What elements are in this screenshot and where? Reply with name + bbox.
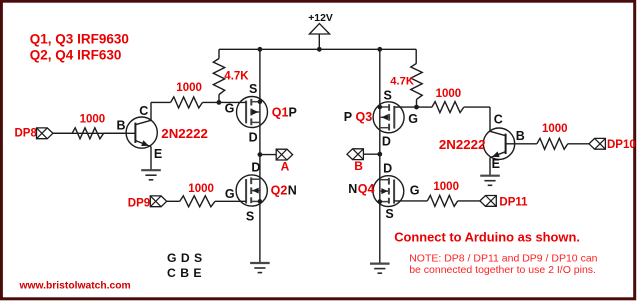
- svg-text:Q1, Q3 IRF9630: Q1, Q3 IRF9630: [30, 31, 129, 46]
- svg-text:Q4: Q4: [358, 182, 375, 196]
- svg-text:+12V: +12V: [308, 13, 333, 24]
- svg-text:2N2222: 2N2222: [439, 137, 486, 152]
- svg-text:G: G: [225, 187, 235, 201]
- svg-text:Q1: Q1: [272, 105, 289, 119]
- svg-text:G: G: [225, 102, 235, 116]
- svg-text:Connect to Arduino as shown.: Connect to Arduino as shown.: [394, 230, 580, 245]
- svg-text:P: P: [344, 110, 352, 124]
- svg-text:D: D: [382, 135, 391, 149]
- svg-text:S: S: [246, 209, 254, 223]
- svg-text:1000: 1000: [176, 82, 202, 94]
- svg-text:1000: 1000: [188, 183, 214, 195]
- svg-text:S: S: [384, 88, 392, 102]
- svg-text:1000: 1000: [433, 181, 459, 193]
- svg-text:C B E: C B E: [167, 266, 202, 280]
- svg-text:P: P: [289, 105, 297, 119]
- svg-text:C: C: [139, 104, 148, 118]
- svg-text:Q2, Q4 IRF630: Q2, Q4 IRF630: [30, 48, 122, 63]
- svg-text:DP10: DP10: [607, 139, 636, 151]
- svg-text:D: D: [383, 161, 392, 175]
- svg-text:E: E: [492, 157, 500, 171]
- svg-text:Q3: Q3: [356, 110, 373, 124]
- svg-text:be connected together to use 2: be connected together to use 2 I/O pins.: [409, 264, 596, 276]
- svg-text:E: E: [154, 147, 162, 161]
- svg-text:Q2: Q2: [271, 184, 288, 198]
- svg-text:4.7K: 4.7K: [224, 71, 249, 83]
- svg-text:D: D: [251, 160, 260, 174]
- svg-text:1000: 1000: [436, 88, 462, 100]
- svg-text:N: N: [288, 184, 297, 198]
- svg-text:B: B: [354, 159, 363, 173]
- svg-text:DP8: DP8: [15, 127, 38, 139]
- svg-text:DP9: DP9: [128, 198, 150, 210]
- svg-text:S: S: [385, 207, 393, 221]
- svg-text:1000: 1000: [542, 123, 568, 135]
- svg-text:www.bristolwatch.com: www.bristolwatch.com: [19, 280, 131, 291]
- svg-text:DP11: DP11: [499, 196, 528, 208]
- svg-text:2N2222: 2N2222: [161, 126, 208, 141]
- svg-text:S: S: [249, 82, 257, 96]
- svg-text:NOTE: DP8 / DP11 and DP9 / DP1: NOTE: DP8 / DP11 and DP9 / DP10 can: [409, 253, 597, 265]
- svg-text:G: G: [408, 112, 418, 126]
- svg-text:A: A: [281, 159, 290, 173]
- svg-text:4.7K: 4.7K: [390, 75, 414, 87]
- svg-text:B: B: [516, 129, 525, 143]
- svg-text:D: D: [249, 130, 258, 144]
- svg-text:N: N: [348, 182, 357, 196]
- svg-text:B: B: [117, 118, 126, 132]
- svg-text:C: C: [494, 113, 503, 127]
- svg-text:1000: 1000: [80, 113, 106, 125]
- svg-text:G D S: G D S: [167, 251, 203, 265]
- svg-text:G: G: [410, 184, 420, 198]
